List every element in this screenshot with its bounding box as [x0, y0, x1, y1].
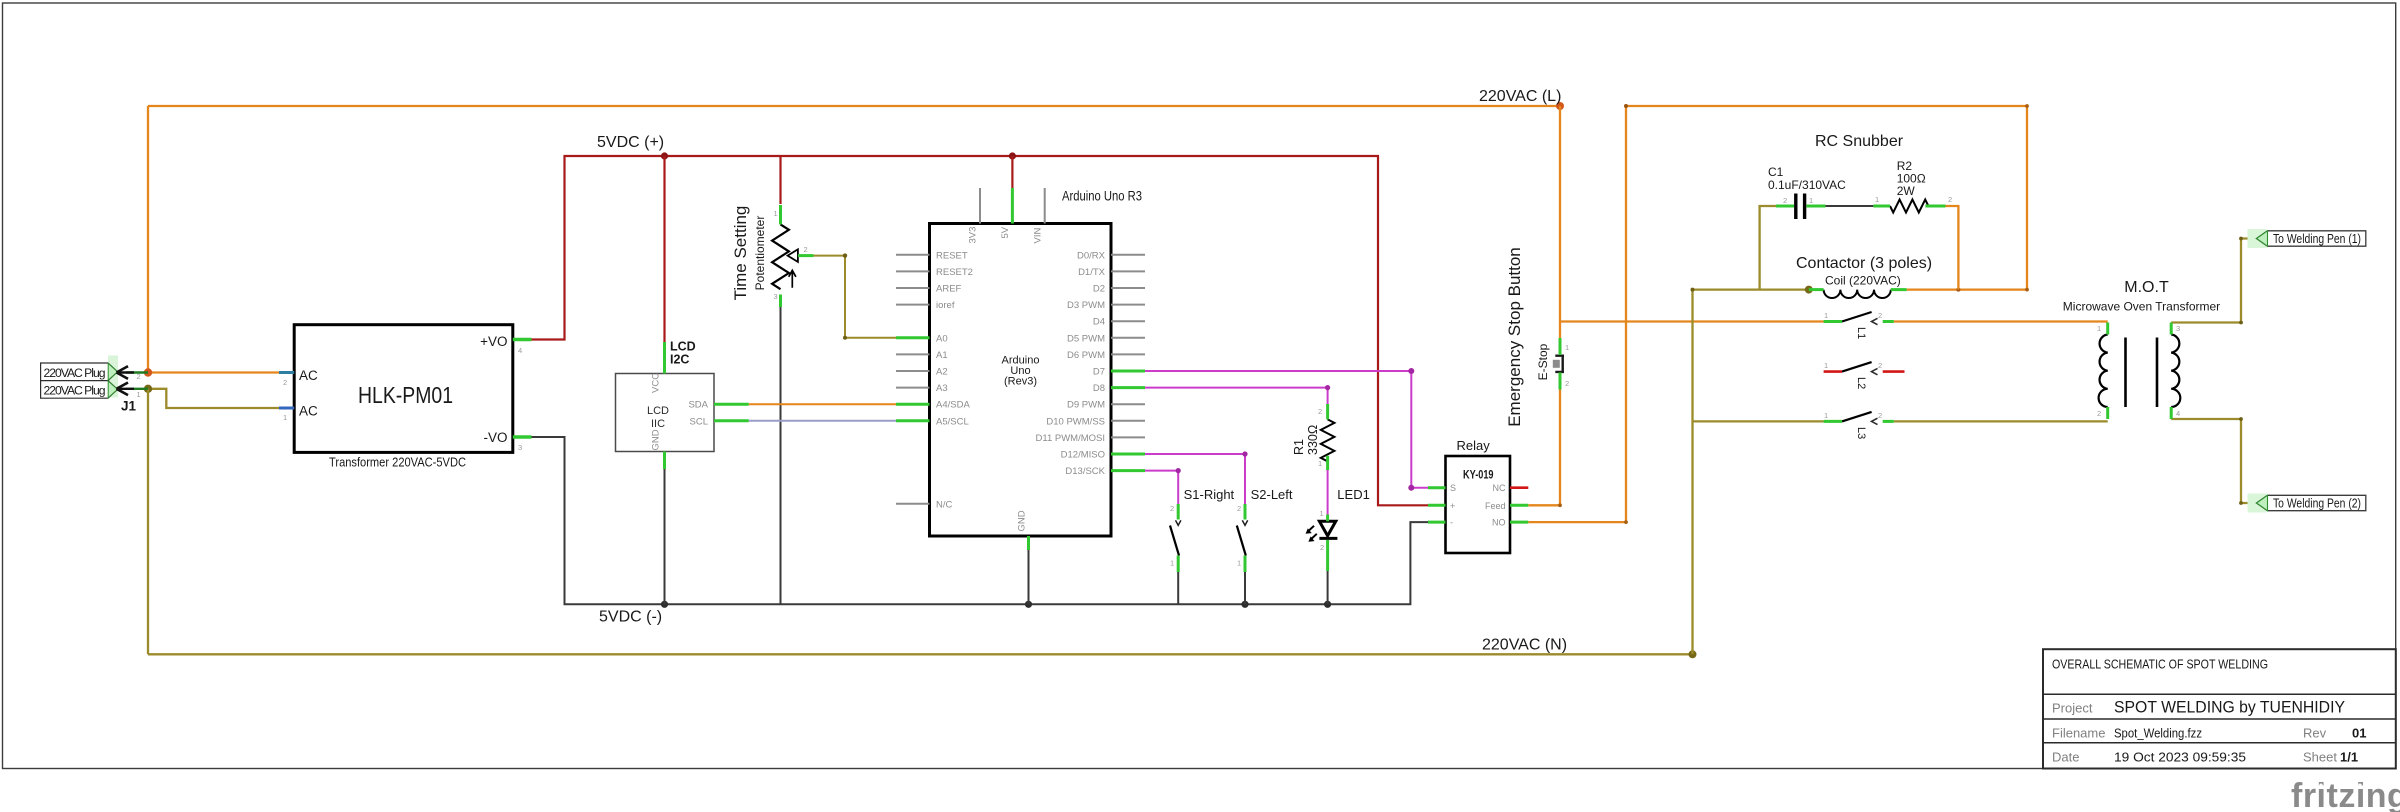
svg-text:4: 4: [518, 346, 522, 355]
svg-text:5VDC (+): 5VDC (+): [597, 134, 664, 151]
wire arduino GND drop: [1028, 550, 1030, 604]
wire pot wiper to A0: [814, 256, 897, 338]
svg-text:A5/SCL: A5/SCL: [936, 416, 969, 427]
svg-text:2: 2: [1948, 195, 1952, 204]
svg-text:R1: R1: [1292, 439, 1306, 455]
pin R2 left stub: [1873, 205, 1890, 208]
pin D13 stub: [1111, 469, 1145, 472]
svg-text:SPOT WELDING by TUENHIDIY: SPOT WELDING by TUENHIDIY: [2114, 699, 2345, 717]
wire 220VAC(N) left vertical: [147, 389, 149, 655]
svg-text:A1: A1: [936, 350, 948, 361]
wire MOT secondary bottom to pen2: [2171, 419, 2256, 503]
pin pot1 stub: [779, 205, 782, 224]
svg-text:+VO: +VO: [480, 334, 507, 349]
svg-text:D5 PWM: D5 PWM: [1067, 333, 1105, 344]
node J1 pin1 junction: [144, 385, 152, 393]
wire J1 pin1 olive to AC1: [148, 389, 279, 408]
wire 220VAC(L) top horizontal: [148, 105, 1560, 107]
contactor pole L1: [1824, 311, 1882, 339]
svg-text:VCC: VCC: [651, 373, 662, 393]
svg-text:HLK-PM01: HLK-PM01: [358, 382, 453, 408]
svg-text:5VDC (-): 5VDC (-): [599, 609, 662, 626]
node 220VAC(L) junction: [1556, 102, 1564, 110]
wire E-stop bottom to relay Feed: [1528, 390, 1560, 506]
svg-text:AC: AC: [299, 368, 318, 383]
220VAC Plug flag 1: [41, 381, 118, 399]
svg-text:1: 1: [1824, 311, 1828, 320]
svg-text:NO: NO: [1492, 518, 1506, 528]
pin +VO stub: [513, 338, 532, 341]
svg-text:Potentiometer: Potentiometer: [753, 216, 767, 291]
wire LED gnd drop: [1327, 571, 1329, 604]
svg-text:D1/TX: D1/TX: [1078, 267, 1106, 278]
pin LCD VCC stub: [663, 342, 666, 374]
pin S2 bottom stub: [1244, 556, 1247, 573]
svg-text:01: 01: [2352, 726, 2366, 741]
label 220VAC (L): [1479, 88, 1561, 105]
pin C1 right stub: [1806, 205, 1825, 208]
fritzing watermark: [2291, 777, 2400, 812]
node coil-left junction: [1805, 286, 1813, 294]
label 5VDC (-): [599, 609, 662, 626]
wire MOT secondary top to pen1: [2171, 239, 2256, 323]
pin R2 right stub: [1925, 205, 1945, 208]
svg-text:SCL: SCL: [690, 417, 708, 428]
svg-text:3V3: 3V3: [968, 227, 979, 244]
node gnd LED: [1324, 601, 1331, 608]
wire olive riser to coil line: [1693, 290, 1809, 655]
pin L1 left stub: [1824, 320, 1842, 323]
LED1: [1306, 487, 1370, 552]
svg-text:S: S: [1450, 483, 1456, 493]
svg-text:(Rev3): (Rev3): [1004, 376, 1037, 388]
HLK-PM01 box U1: [283, 325, 522, 470]
node A0 bend: [843, 336, 847, 340]
svg-text:1/1: 1/1: [2340, 750, 2358, 765]
svg-text:1: 1: [2097, 324, 2101, 333]
pin LED anode stub: [1326, 515, 1329, 522]
svg-text:2W: 2W: [1897, 184, 1916, 198]
svg-text:2: 2: [1318, 407, 1322, 416]
label 5VDC (+): [597, 134, 664, 151]
svg-text:Arduino Uno R3: Arduino Uno R3: [1062, 188, 1142, 204]
svg-text:Contactor (3 poles): Contactor (3 poles): [1796, 255, 1932, 272]
pin L2 right stub red: [1883, 370, 1905, 373]
wire D13 to S1: [1145, 471, 1178, 504]
pin S2 top stub: [1244, 504, 1247, 520]
svg-text:1: 1: [1875, 195, 1879, 204]
pin L3 left stub: [1824, 420, 1842, 423]
svg-text:M.O.T: M.O.T: [2124, 279, 2169, 296]
svg-text:SDA: SDA: [688, 400, 708, 411]
pin 5V stub: [1011, 188, 1014, 224]
pin L3 right stub: [1883, 420, 1894, 423]
svg-text:1: 1: [1320, 509, 1324, 518]
svg-text:220VAC (L): 220VAC (L): [1479, 88, 1561, 105]
pin A0 stub: [896, 336, 930, 339]
LCD I2C module: [616, 340, 715, 452]
svg-text:KY-019: KY-019: [1463, 469, 1494, 481]
svg-text:4: 4: [2176, 409, 2180, 418]
wire L3 to MOT primary bottom: [1894, 420, 2108, 422]
svg-text:J1: J1: [121, 399, 137, 414]
svg-text:2: 2: [2097, 409, 2101, 418]
Arduino Uno R3 U2: [930, 188, 1143, 537]
node gnd LCD: [661, 601, 668, 608]
svg-text:Project: Project: [2052, 701, 2093, 716]
svg-text:IIC: IIC: [651, 418, 665, 430]
svg-text:3: 3: [2176, 324, 2180, 333]
wire LCD VCC drop: [663, 156, 665, 342]
node 5VDC+ LCD junction: [661, 152, 668, 159]
wire D8 to R1: [1145, 388, 1328, 404]
svg-text:D11 PWM/MOSI: D11 PWM/MOSI: [1036, 433, 1106, 444]
svg-text:OVERALL SCHEMATIC OF SPOT WELD: OVERALL SCHEMATIC OF SPOT WELDING: [2052, 658, 2268, 672]
svg-text:RC Snubber: RC Snubber: [1815, 133, 1904, 150]
pin R1 bottom stub: [1326, 456, 1329, 470]
pin LCD SCL stub: [714, 419, 749, 422]
svg-text:1: 1: [1565, 343, 1569, 352]
pin relay NC stub red: [1510, 486, 1528, 489]
potentiometer R3 Time Setting: [731, 206, 808, 301]
wire C1 left drop: [1760, 206, 1776, 290]
svg-text:Time Setting: Time Setting: [731, 206, 750, 301]
relay KY-019: [1446, 438, 1511, 553]
svg-text:1: 1: [1824, 361, 1828, 370]
svg-text:To Welding Pen (1): To Welding Pen (1): [2273, 232, 2361, 246]
svg-text:2: 2: [1170, 504, 1174, 513]
node D8 bend: [1325, 385, 1330, 390]
pin S1 bottom stub: [1177, 556, 1180, 573]
svg-text:VIN: VIN: [1032, 228, 1043, 244]
svg-text:-: -: [1450, 518, 1453, 528]
svg-text:AC: AC: [299, 404, 318, 419]
pin relay Feed stub: [1510, 504, 1528, 507]
connector J1 arrows: [117, 366, 149, 413]
pin D12 stub: [1111, 453, 1145, 456]
svg-text:L1: L1: [1855, 327, 1867, 339]
svg-text:1: 1: [1809, 196, 1813, 205]
wire relay NO riser and top right: [1528, 106, 2027, 522]
arduino top pin stubs: [980, 188, 1045, 224]
svg-text:D2: D2: [1093, 284, 1105, 295]
wire L1 to MOT primary: [1894, 320, 2108, 322]
wire pot pin3 drop: [780, 307, 782, 604]
svg-text:Relay: Relay: [1457, 438, 1491, 453]
pin relay - stub: [1428, 521, 1446, 524]
pin L2 left stub red: [1824, 370, 1842, 373]
wire D7 to relay S: [1145, 371, 1428, 488]
pin C1 left stub: [1776, 205, 1794, 208]
wire SCL: [749, 420, 896, 422]
pin estop bottom stub: [1559, 373, 1562, 390]
svg-text:N/C: N/C: [936, 499, 953, 510]
wire R2 right drop: [1946, 206, 1959, 290]
svg-text:3: 3: [774, 292, 778, 301]
svg-text:D9 PWM: D9 PWM: [1067, 400, 1105, 411]
svg-text:220VAC (N): 220VAC (N): [1482, 637, 1567, 654]
svg-text:A2: A2: [936, 367, 948, 378]
svg-text:2: 2: [1783, 196, 1787, 205]
switch S2-Left: [1237, 487, 1293, 568]
wire C1 to R2: [1825, 205, 1873, 207]
svg-text:D7: D7: [1093, 367, 1105, 378]
svg-text:19 Oct 2023 09:59:35: 19 Oct 2023 09:59:35: [2114, 750, 2246, 765]
node D12 bend: [1242, 451, 1247, 456]
label RC Snubber: [1815, 133, 1904, 150]
pin pot2 stub: [798, 254, 814, 257]
pin AC1 stub: [279, 407, 294, 410]
wire 5VDC- main: [532, 437, 1429, 604]
capacitor C1: [1768, 165, 1846, 219]
pin relay NO stub: [1510, 521, 1528, 524]
wire J1 pin2 to AC2: [148, 371, 279, 373]
pin MOT p1 stub: [2106, 323, 2109, 335]
svg-text:Coil (220VAC): Coil (220VAC): [1825, 274, 1901, 288]
arduino right pin labels: [1036, 250, 1106, 477]
wire R1 to LED: [1327, 470, 1329, 515]
svg-text:Sheet: Sheet: [2303, 750, 2337, 765]
wire 220VAC(N) bottom horizontal: [148, 653, 1693, 655]
pin S1 top stub: [1177, 504, 1180, 520]
svg-text:S2-Left: S2-Left: [1251, 487, 1293, 502]
svg-text:D13/SCK: D13/SCK: [1065, 466, 1105, 477]
svg-text:Spot_Welding.fzz: Spot_Welding.fzz: [2114, 726, 2202, 741]
svg-text:2: 2: [1878, 311, 1882, 320]
pin R1 top stub: [1326, 404, 1329, 419]
node bend coil-right: [1956, 288, 1960, 292]
svg-text:1: 1: [1170, 559, 1174, 568]
svg-text:AREF: AREF: [936, 284, 962, 295]
wire SDA: [749, 403, 896, 405]
svg-text:2: 2: [137, 372, 141, 381]
svg-text:D10 PWM/SS: D10 PWM/SS: [1046, 416, 1105, 427]
svg-text:D0/RX: D0/RX: [1077, 250, 1106, 261]
svg-text:Microwave Oven Transformer: Microwave Oven Transformer: [2063, 300, 2220, 314]
svg-text:2: 2: [804, 245, 808, 254]
node wiper bend: [843, 253, 847, 257]
svg-text:RESET2: RESET2: [936, 267, 973, 278]
node 220VAC(N) junction: [1689, 650, 1697, 658]
wire E-stop top: [1559, 106, 1561, 338]
pin AC2 stub: [279, 371, 294, 374]
pin GND stub: [1027, 536, 1030, 550]
arduino left pin labels: [936, 250, 973, 510]
node D13 bend: [1176, 468, 1181, 473]
svg-text:L3: L3: [1855, 427, 1867, 439]
svg-text:2: 2: [1320, 543, 1324, 552]
svg-text:1: 1: [283, 413, 287, 422]
svg-text:LCD: LCD: [670, 340, 696, 354]
pin A4 stub: [896, 403, 930, 406]
contactor pole L3: [1824, 411, 1882, 439]
svg-text:2: 2: [1237, 504, 1241, 513]
pin A5 stub: [896, 419, 930, 422]
pin coil left stub: [1809, 288, 1824, 291]
svg-text:RESET: RESET: [936, 250, 968, 261]
svg-text:Transformer 220VAC-5VDC: Transformer 220VAC-5VDC: [329, 455, 466, 470]
wire pot pin1 drop: [779, 156, 781, 204]
svg-text:Feed: Feed: [1485, 501, 1506, 511]
220VAC Plug flag 2: [41, 356, 118, 398]
node bend olive top: [1691, 288, 1695, 292]
svg-text:LED1: LED1: [1337, 487, 1370, 502]
wire LCD GND drop: [664, 469, 666, 604]
svg-text:E-Stop: E-Stop: [1536, 343, 1550, 380]
label 220VAC (N): [1482, 637, 1567, 654]
svg-text:D3 PWM: D3 PWM: [1067, 300, 1105, 311]
node D7 bend: [1408, 368, 1414, 374]
pin D8 stub: [1111, 386, 1145, 389]
flag To Welding Pen 2: [2248, 494, 2366, 513]
pin D7 stub: [1111, 370, 1145, 373]
arduino top pin labels: [968, 226, 1044, 243]
pin relay + stub: [1428, 504, 1446, 507]
svg-text:ioref: ioref: [936, 300, 955, 311]
switch S1-Right: [1170, 487, 1235, 568]
svg-text:I2C: I2C: [670, 353, 689, 367]
svg-text:2: 2: [283, 378, 287, 387]
svg-text:0.1uF/310VAC: 0.1uF/310VAC: [1768, 178, 1846, 192]
svg-text:NC: NC: [1493, 483, 1506, 493]
node 5VDC+ 5V junction: [1009, 152, 1016, 159]
svg-text:1: 1: [137, 390, 141, 399]
pin -VO stub: [513, 435, 532, 438]
svg-text:Emergency Stop Button: Emergency Stop Button: [1505, 247, 1524, 427]
node bend feed corner: [1558, 104, 2029, 524]
node bend MOT pen corners: [2239, 237, 2243, 505]
svg-text:fritzing: fritzing: [2291, 777, 2400, 812]
node J1 pin2 junction: [144, 368, 152, 376]
svg-text:L2: L2: [1855, 377, 1867, 389]
pin LCD GND stub: [663, 452, 666, 470]
svg-text:LCD: LCD: [647, 405, 669, 417]
svg-text:1: 1: [1318, 459, 1322, 468]
wire L3 left: [1693, 420, 1824, 422]
svg-text:1: 1: [1237, 559, 1241, 568]
svg-text:A3: A3: [936, 383, 948, 394]
node bend NO top: [1624, 104, 1628, 108]
svg-text:2: 2: [1878, 411, 1882, 420]
svg-text:+: +: [1450, 501, 1455, 511]
svg-text:To Welding Pen (2): To Welding Pen (2): [2273, 497, 2361, 511]
pin MOT p2 stub: [2106, 407, 2109, 419]
title block: [2043, 649, 2396, 768]
node S bend: [1408, 485, 1414, 491]
svg-text:D6 PWM: D6 PWM: [1067, 350, 1105, 361]
svg-text:5V: 5V: [1000, 226, 1011, 238]
svg-text:GND: GND: [1016, 510, 1027, 531]
svg-text:A0: A0: [936, 333, 948, 344]
wire S2 gnd drop: [1244, 572, 1246, 604]
svg-text:S1-Right: S1-Right: [1184, 487, 1235, 502]
pin MOT s1 stub: [2170, 323, 2173, 335]
svg-text:A4/SDA: A4/SDA: [936, 400, 970, 411]
svg-text:3: 3: [518, 443, 522, 452]
label Contactor: [1796, 255, 1932, 272]
svg-text:330Ω: 330Ω: [1306, 425, 1320, 455]
svg-text:220VAC Plug: 220VAC Plug: [44, 384, 106, 398]
node gnd S2: [1241, 601, 1248, 608]
pin pot3 stub: [779, 295, 782, 308]
flag To Welding Pen 1: [2248, 229, 2366, 248]
svg-text:2: 2: [1565, 379, 1569, 388]
svg-text:Date: Date: [2052, 750, 2079, 765]
pin coil right stub: [1891, 288, 1907, 291]
svg-text:1: 1: [774, 209, 778, 218]
svg-text:2: 2: [1878, 361, 1882, 370]
pin LCD SDA stub: [714, 403, 749, 406]
pin MOT s2 stub: [2170, 407, 2173, 419]
resistor R1 330: [1292, 407, 1334, 468]
svg-text:D12/MISO: D12/MISO: [1061, 450, 1105, 461]
pin L1 right stub: [1883, 320, 1894, 323]
wire S1 gnd drop: [1177, 572, 1179, 604]
arduino left pin stubs: [896, 255, 930, 504]
pin relay S stub: [1428, 486, 1446, 489]
resistor R2: [1875, 159, 1952, 213]
E-Stop button: [1505, 247, 1569, 427]
pin LED cathode stub: [1326, 540, 1329, 571]
contactor pole L2: [1824, 361, 1882, 389]
contactor coil: [1824, 274, 1901, 299]
svg-text:Filename: Filename: [2052, 726, 2105, 741]
arduino right pin stubs: [1111, 255, 1145, 438]
svg-text:Rev: Rev: [2303, 726, 2327, 741]
wire arduino 5V drop: [1011, 156, 1013, 188]
wire 220VAC(L) left vertical: [147, 106, 149, 373]
svg-text:C1: C1: [1768, 165, 1784, 179]
svg-text:D4: D4: [1093, 317, 1105, 328]
svg-text:-VO: -VO: [483, 430, 507, 445]
node gnd arduino: [1025, 601, 1032, 608]
pin estop top stub: [1559, 338, 1562, 355]
wire D12 to S2: [1145, 454, 1245, 504]
wire 5VDC+ main: [532, 156, 1429, 505]
wire L1 feed from e-stop line: [1560, 320, 1824, 322]
svg-text:1: 1: [1824, 411, 1828, 420]
svg-text:GND: GND: [651, 429, 662, 450]
arduino GND label: [1016, 510, 1027, 531]
transformer M.O.T: [2063, 279, 2220, 418]
svg-text:D8: D8: [1093, 383, 1105, 394]
svg-text:220VAC Plug: 220VAC Plug: [44, 366, 106, 380]
